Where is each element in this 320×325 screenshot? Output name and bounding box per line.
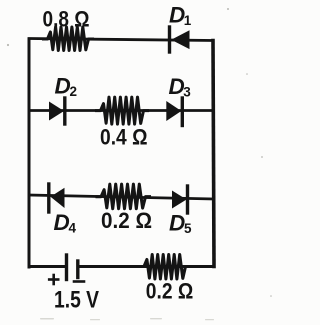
svg-text:2: 2 bbox=[70, 84, 78, 99]
svg-text:1: 1 bbox=[184, 13, 192, 28]
svg-text:0.2 Ω: 0.2 Ω bbox=[146, 278, 194, 303]
svg-text:D: D bbox=[169, 211, 185, 236]
svg-text:5: 5 bbox=[184, 221, 192, 236]
svg-text:D: D bbox=[55, 74, 71, 99]
svg-text:1.5 V: 1.5 V bbox=[54, 287, 99, 314]
svg-text:3: 3 bbox=[183, 85, 191, 100]
svg-text:0.4 Ω: 0.4 Ω bbox=[100, 125, 148, 150]
svg-text:0.2 Ω: 0.2 Ω bbox=[101, 208, 152, 233]
svg-text:D: D bbox=[54, 210, 70, 235]
svg-text:4: 4 bbox=[69, 221, 77, 236]
svg-text:0.8 Ω: 0.8 Ω bbox=[43, 7, 90, 32]
